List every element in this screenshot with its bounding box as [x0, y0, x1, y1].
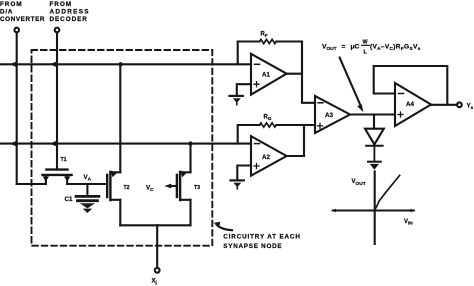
transistor T2 drain lead [110, 171, 120, 173]
A3 minus sign [318, 102, 323, 104]
transistor T3 source lead [180, 199, 190, 201]
arrow mark T1 left lead [43, 177, 50, 182]
svg-text:W: W [363, 40, 369, 46]
svg-text:VOUT: VOUT [322, 44, 337, 53]
svg-text:A3: A3 [325, 112, 333, 119]
graph axes: vertical axis [374, 171, 376, 244]
wire differential pair tail [120, 224, 190, 226]
svg-text:VIN: VIN [404, 219, 413, 226]
transistor T1 drain lead [66, 176, 68, 184]
svg-text:FROM: FROM [50, 1, 72, 8]
junction arrow on bus2 at D/A wire [10, 141, 17, 147]
arrow mark T2 drain [111, 171, 118, 177]
svg-text:=: = [342, 44, 346, 51]
svg-text:A4: A4 [406, 101, 414, 108]
wire A3 output to A4 noninverting input [350, 113, 395, 115]
graph label Vin [404, 219, 413, 226]
wire D/A input vertical [16, 32, 18, 184]
ground below C1 [80, 203, 95, 213]
diode cathode bar [366, 145, 382, 147]
label FROM D/A CONVERTER [0, 1, 45, 23]
svg-text:Xj: Xj [152, 279, 157, 286]
A1 minus sign [255, 63, 260, 65]
A3 plus sign [318, 123, 323, 128]
graph transfer curve [375, 175, 400, 209]
junction dot bus1 / T2 drain [118, 62, 122, 66]
svg-text:C1: C1 [65, 196, 73, 203]
svg-text:L: L [364, 50, 368, 56]
graph axis left arrow [331, 209, 336, 212]
svg-text:D/A: D/A [0, 9, 13, 16]
wire bus row 1 (to A1 inverting input) [0, 63, 251, 65]
terminal Xj [155, 268, 160, 273]
terminal from D/A converter [14, 28, 19, 33]
wire T2 drain to bus1 [119, 64, 121, 172]
transistor T2 channel [109, 172, 111, 200]
label VA [84, 174, 92, 182]
ground below diode [368, 162, 381, 170]
label VC [146, 185, 154, 193]
A1 noninverting input to ground [237, 84, 251, 95]
graph horizontal axis [333, 209, 414, 211]
op-amp A4 [395, 83, 431, 126]
label CIRCUITRY AT EACH SYNAPSE NODE [223, 234, 300, 251]
callout arrow to dashed box [217, 225, 233, 231]
diode to ground lead [373, 147, 375, 162]
annotation arrow formula to A3 output node [340, 58, 361, 107]
wire address decoder vertical (to T1 gate) [56, 32, 58, 169]
diode lead from A3 output node [373, 115, 375, 129]
svg-text:ADDRESS: ADDRESS [50, 9, 90, 16]
A2 noninverting input to ground [237, 166, 251, 180]
arrow mark T1 right lead [64, 177, 70, 182]
formula Vout [322, 40, 421, 56]
resistor RG feedback of A2 [238, 125, 315, 144]
svg-text:CIRCUITRY AT EACH: CIRCUITRY AT EACH [223, 234, 300, 241]
transistor T1 channel [43, 174, 72, 176]
transistor T3 channel [179, 172, 181, 200]
svg-text:T3: T3 [194, 185, 200, 191]
label RG [264, 115, 272, 122]
capacitor C1 lead [86, 184, 88, 195]
A2 plus sign [254, 164, 259, 169]
resistor RF feedback of A1 [238, 42, 302, 65]
wire A1 output [287, 73, 302, 75]
wire bus row 2 (to A2 inverting input) [0, 143, 251, 145]
transistor T3 drain lead [180, 171, 190, 173]
wire T3 source down [189, 200, 191, 226]
wire A1 output down to A3 inverting input [302, 42, 315, 103]
svg-text:VOUT: VOUT [352, 179, 366, 187]
svg-text:SYNAPSE NODE: SYNAPSE NODE [223, 243, 282, 250]
svg-text:T2: T2 [124, 185, 130, 191]
op-amp A3 [315, 96, 350, 133]
svg-text:A1: A1 [262, 72, 270, 79]
svg-text:RG: RG [264, 115, 272, 122]
ground at A1 [230, 96, 243, 105]
wire node VA (T1 drain to T2 gate) [67, 183, 107, 185]
wire A2 output [287, 155, 304, 157]
label RF [261, 32, 268, 39]
svg-text:T1: T1 [61, 157, 67, 163]
A2 minus sign [255, 143, 260, 145]
svg-text:VC: VC [146, 185, 154, 193]
svg-text:FROM: FROM [0, 1, 22, 8]
op-amp A2 [251, 136, 287, 176]
svg-text:RF: RF [261, 32, 268, 39]
wire VC to T3 gate with arrow [170, 185, 177, 187]
wire A2 output up to A3 noninverting input [303, 125, 305, 156]
junction dot bus2 / T3 drain [188, 141, 192, 145]
label FROM ADDRESS DECODER [50, 1, 90, 23]
transistor T2 source lead [110, 199, 120, 201]
svg-text:VA: VA [84, 174, 92, 182]
terminal from address decoder [55, 28, 60, 33]
svg-text:A2: A2 [262, 154, 270, 161]
wire T1 source to D/A line [17, 183, 46, 185]
ground at A2 [231, 180, 244, 188]
A4 minus sign [399, 93, 404, 95]
arrow mark T3 drain [181, 171, 188, 177]
svg-text:CONVERTER: CONVERTER [0, 16, 45, 23]
transistor T2 gate bar [106, 175, 108, 197]
dashed box: circuitry at each synapse node [32, 50, 213, 246]
label Xj [152, 279, 157, 286]
wire A4 output [431, 104, 457, 106]
graph label Vout [352, 179, 366, 187]
A4 plus sign [398, 112, 403, 117]
terminal Ys [457, 102, 462, 107]
junction arrow on bus1 at address wire [50, 61, 58, 67]
op-amp A1 [251, 54, 287, 95]
transistor T1 gate bar [46, 168, 67, 170]
junction arrow on bus2 at T1 gate wire [50, 141, 58, 147]
wire T2 source down [119, 200, 121, 226]
wire A4 feedback loop [374, 66, 448, 105]
diode [365, 129, 384, 145]
transistor T1 source lead [45, 176, 47, 184]
junction arrow on bus1 at D/A wire [10, 61, 17, 67]
svg-text:Ys: Ys [467, 103, 474, 111]
capacitor C1 bottom plate [78, 199, 98, 202]
transistor T3 gate bar [176, 175, 178, 197]
svg-text:DECODER: DECODER [50, 16, 88, 23]
wire tail to Xj terminal [156, 225, 158, 268]
wire T3 drain to bus2 [189, 144, 191, 173]
svg-text:μC: μC [351, 44, 360, 51]
label Ys [467, 103, 474, 111]
A1 plus sign [254, 82, 259, 87]
svg-text:(VA–VC)RFGSVs: (VA–VC)RFGSVs [370, 44, 421, 53]
capacitor C1 top plate [76, 195, 99, 198]
graph axis right arrow [411, 209, 416, 212]
